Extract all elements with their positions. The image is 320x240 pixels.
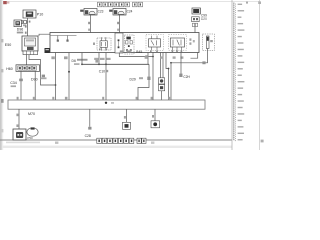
bottom light band [2, 146, 232, 148]
svg-text:P50: P50 [27, 136, 33, 140]
T4 connector box [192, 17, 200, 22]
wire E50 pin to H60 [26, 55, 28, 65]
wire E50 pin left L to bus [29, 55, 56, 85]
svg-text:H60: H60 [6, 67, 13, 71]
sensor icon box 2 [159, 85, 165, 91]
pin labels right inside B001 [189, 38, 191, 40]
tick above bar x136 [136, 97, 138, 100]
fuse box F0 [115, 33, 123, 53]
pin number marks inside box bottom [120, 50, 124, 52]
tick on x126 [124, 116, 126, 119]
inline connector on x63 [64, 56, 68, 59]
pin x82 to bus [81, 53, 83, 65]
label B001 corner [45, 48, 50, 53]
relay R1 [97, 37, 111, 50]
sidebar legend rows [238, 4, 243, 5]
svg-text:D29: D29 [130, 78, 136, 82]
svg-text:E50: E50 [5, 43, 11, 47]
fuse box F2 standalone [203, 34, 215, 51]
D90 code dash [41, 77, 47, 79]
wire D96 to main wire [20, 21, 22, 23]
sidebar tick strip dots [233, 3, 234, 4]
wire x153 to bar [152, 53, 154, 101]
sidebar scroll bottom mark [261, 140, 264, 143]
pin tick on wire [25, 25, 27, 27]
display unit E50 [22, 36, 38, 51]
junction dot x171 [170, 62, 172, 64]
fuse/relay box B001 [50, 33, 199, 53]
D6 color dashes row1 [77, 59, 88, 61]
tick on x19 a [16, 114, 18, 117]
faint footer text [6, 142, 40, 144]
T2 pin number [88, 29, 90, 31]
wire x69 to bar [68, 53, 70, 101]
wire T4 down [194, 27, 196, 38]
pin label dashes under R1 [94, 58, 98, 60]
tick on x19 b [16, 124, 18, 127]
C34 code dash [11, 85, 16, 87]
junction dot x82 [81, 63, 83, 65]
T2 pin tick [88, 22, 90, 24]
T4 pin pair [192, 23, 194, 26]
bar center dot [105, 102, 107, 104]
component T4 top box [192, 8, 200, 14]
wire below bar x126 [126, 109, 128, 122]
T2 left tiny label [80, 10, 83, 12]
C10 color dash [106, 70, 108, 72]
bar center tiny label [111, 102, 114, 104]
sidebar scroll top mark [258, 1, 261, 4]
pin jog x197.7 [191, 53, 198, 59]
rail stub x67.5 [67, 36, 69, 40]
svg-text:D90: D90 [31, 78, 38, 82]
frame bottom tick x56 [55, 142, 58, 144]
relay R3 [169, 35, 187, 53]
D6 color dashes row2 [74, 63, 80, 65]
D90 connector tick on x43.5 [42, 75, 45, 78]
junction dot x69 y71.8 [68, 71, 70, 73]
fuse group F1 [125, 35, 135, 54]
frame left tick y100 [1, 99, 4, 103]
sidebar tick strip [233, 3, 236, 142]
wire below bar x19 [18, 109, 20, 129]
F0 pin jog wire [119, 53, 153, 57]
pin x160.5 to icon box [160, 53, 162, 78]
wire T3 down [119, 15, 121, 38]
splice bar M70 [8, 100, 205, 109]
svg-text:C23: C23 [98, 10, 104, 14]
wire x166 junction [166, 53, 169, 69]
component S1 [123, 122, 131, 129]
component S2 [151, 121, 160, 128]
wire below F2 [171, 49, 208, 63]
svg-text:D6: D6 [72, 59, 76, 63]
junction dot x99 [98, 63, 100, 65]
junction dot x168.5 [168, 68, 170, 70]
wire H60 right down [34, 71, 36, 100]
left gray margin strip [0, 0, 2, 150]
relay R2 [146, 35, 164, 52]
wire x181 stub [180, 53, 182, 75]
inline connector on F2 wire [202, 61, 205, 64]
junction dot x55.5 y85 [55, 84, 57, 86]
component T3 [113, 9, 126, 16]
frame bottom tick x152 [151, 142, 154, 144]
frame left tick y70 [1, 69, 3, 72]
svg-text:C10: C10 [99, 69, 105, 73]
svg-text:D96: D96 [17, 28, 23, 32]
svg-text:C2H: C2H [183, 75, 190, 79]
svg-text:C34: C34 [10, 81, 17, 85]
bottom connector pin row [97, 138, 146, 143]
wire into E50 top right [39, 34, 50, 36]
component K1 bottom-left [13, 129, 26, 140]
E50 pin row [23, 51, 38, 55]
T3 left tiny label [109, 10, 112, 12]
svg-text:P10: P10 [37, 12, 43, 16]
svg-text:C28: C28 [85, 134, 91, 138]
svg-text:B45: B45 [136, 50, 142, 54]
frame left tick y130 [1, 129, 3, 132]
T3 pin number [117, 29, 119, 31]
D29 code dash [139, 77, 143, 79]
sidebar list header mark [246, 2, 248, 4]
rail stub x57.8 [57, 36, 59, 40]
connector under T1 [21, 20, 26, 23]
wire T2 down [90, 15, 92, 38]
junction dot x153 y56.5 [152, 56, 154, 58]
wire x106 to bar [105, 53, 107, 103]
svg-text:M70: M70 [28, 112, 35, 116]
wire below bar x152 [154, 109, 156, 121]
pin x163 to icon box [162, 53, 164, 78]
sidebar right vline [259, 0, 261, 150]
component T1 top-left [23, 10, 36, 18]
svg-text:C24: C24 [127, 10, 133, 14]
D29 connector tick [147, 77, 150, 80]
internal supply rail [51, 35, 77, 37]
tick label left of x99 [95, 60, 98, 63]
wire x146 from R2 [147, 53, 149, 65]
inline connector on x54 [51, 56, 54, 59]
connector tick C34 [19, 79, 23, 82]
ticks above bar [17, 97, 19, 100]
T3 pin tick [117, 22, 119, 24]
component D96 box [14, 20, 21, 27]
top connector pin row C (x97-143) [98, 2, 143, 7]
motor ellipse P50 [27, 128, 38, 136]
component T2 [84, 9, 97, 16]
wire x55.5 to bar [55, 53, 57, 101]
pin tick on wire 2 [25, 32, 27, 34]
wire H60 left down [20, 71, 22, 100]
wire x148 bus corner down [138, 64, 149, 100]
junction dot x106 [105, 63, 107, 65]
sidebar tick strip spine [233, 3, 235, 141]
connector tick x90 below bar [88, 127, 91, 130]
wire T1 down [27, 18, 29, 36]
pin x99 to bus [98, 53, 100, 65]
tick on x146 [145, 55, 148, 58]
wire x155 lower [161, 91, 163, 100]
wire x168.5 to bar [168, 69, 170, 101]
pin number near R1 [93, 43, 95, 46]
frame bottom rule [0, 139, 232, 141]
sensor icon box 1 [159, 78, 165, 84]
horizontal bus y64.3 [82, 63, 149, 65]
red marker dot [3, 1, 7, 4]
connector tick x181 [179, 74, 182, 77]
top faint rule [3, 0, 259, 3]
frame left tick y40 [1, 39, 3, 42]
connector strip H60 [16, 65, 40, 72]
tick on x152 [152, 115, 154, 118]
wire x171 to bar [170, 63, 172, 100]
wire x89.8 below bar [89, 109, 91, 127]
sidebar divider [231, 0, 233, 150]
svg-text:D20: D20 [201, 17, 207, 21]
pin label dashes right cluster [145, 56, 148, 58]
label D96 color code [17, 32, 23, 34]
